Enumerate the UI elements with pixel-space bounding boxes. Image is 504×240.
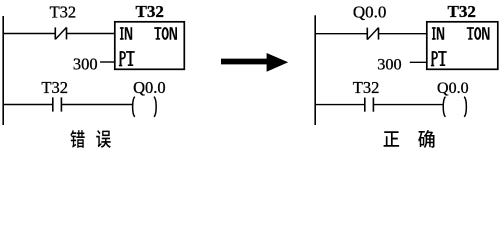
pin label IN (right timer) (432, 27, 444, 40)
caption character 确 (correct) (418, 130, 434, 148)
wire: NO contact to coil Q0.0 (left) (61, 104, 132, 106)
svg-text:Q0.0: Q0.0 (133, 78, 166, 97)
pin label TON (left timer) (154, 27, 177, 40)
svg-text:T32: T32 (448, 2, 476, 21)
timer box T32 TON (right) (427, 22, 498, 70)
caption character 误 (wrong) (96, 130, 111, 148)
caption character 正 (correct) (384, 131, 399, 147)
svg-text:Q0.0: Q0.0 (437, 80, 469, 97)
pin label IN (left timer) (120, 27, 132, 40)
svg-text:300: 300 (73, 54, 98, 73)
NO contact T32 (rung 2 right) (365, 98, 374, 112)
wire: rail to NO contact T32 (rung 2 right) (315, 104, 365, 106)
NO contact T32 (rung 2) (53, 97, 62, 111)
svg-text:T32: T32 (41, 78, 68, 97)
wire: 300 to PT pin (right) (410, 61, 427, 63)
wire: 300 to PT pin (left) (100, 61, 115, 63)
svg-text:T32: T32 (353, 78, 380, 97)
wire: NC contact to timer IN pin (right) (379, 33, 427, 35)
wire: rail to NO contact T32 (rung 2) (3, 104, 53, 106)
arrow (transform) (221, 53, 288, 72)
wire: NO contact to coil Q0.0 (right) (373, 104, 442, 106)
wire: rail to NC contact T32 (rung 1) (3, 33, 55, 35)
pin label TON (right timer) (467, 27, 490, 40)
coil Q0.0 (left) (133, 97, 157, 117)
svg-text:300: 300 (377, 55, 401, 74)
NC contact Q0.0 (rung 1 right) (367, 28, 378, 40)
coil Q0.0 (right) (443, 97, 466, 117)
NC contact T32 (rung 1) (55, 27, 66, 39)
wire: rail to NC contact Q0.0 (rung 1 right) (315, 33, 367, 35)
pin label PT (left timer) (119, 51, 135, 66)
wire: NC contact to timer IN pin (67, 33, 115, 35)
right power rail (314, 15, 316, 125)
left power rail (2, 16, 4, 125)
svg-text:Q0.0: Q0.0 (353, 2, 387, 21)
timer box T32 TON (left) (115, 22, 185, 70)
caption character 错 (wrong) (70, 130, 84, 148)
svg-text:T32: T32 (50, 2, 77, 21)
pin label PT (right timer) (431, 51, 447, 66)
svg-text:T32: T32 (136, 2, 164, 21)
